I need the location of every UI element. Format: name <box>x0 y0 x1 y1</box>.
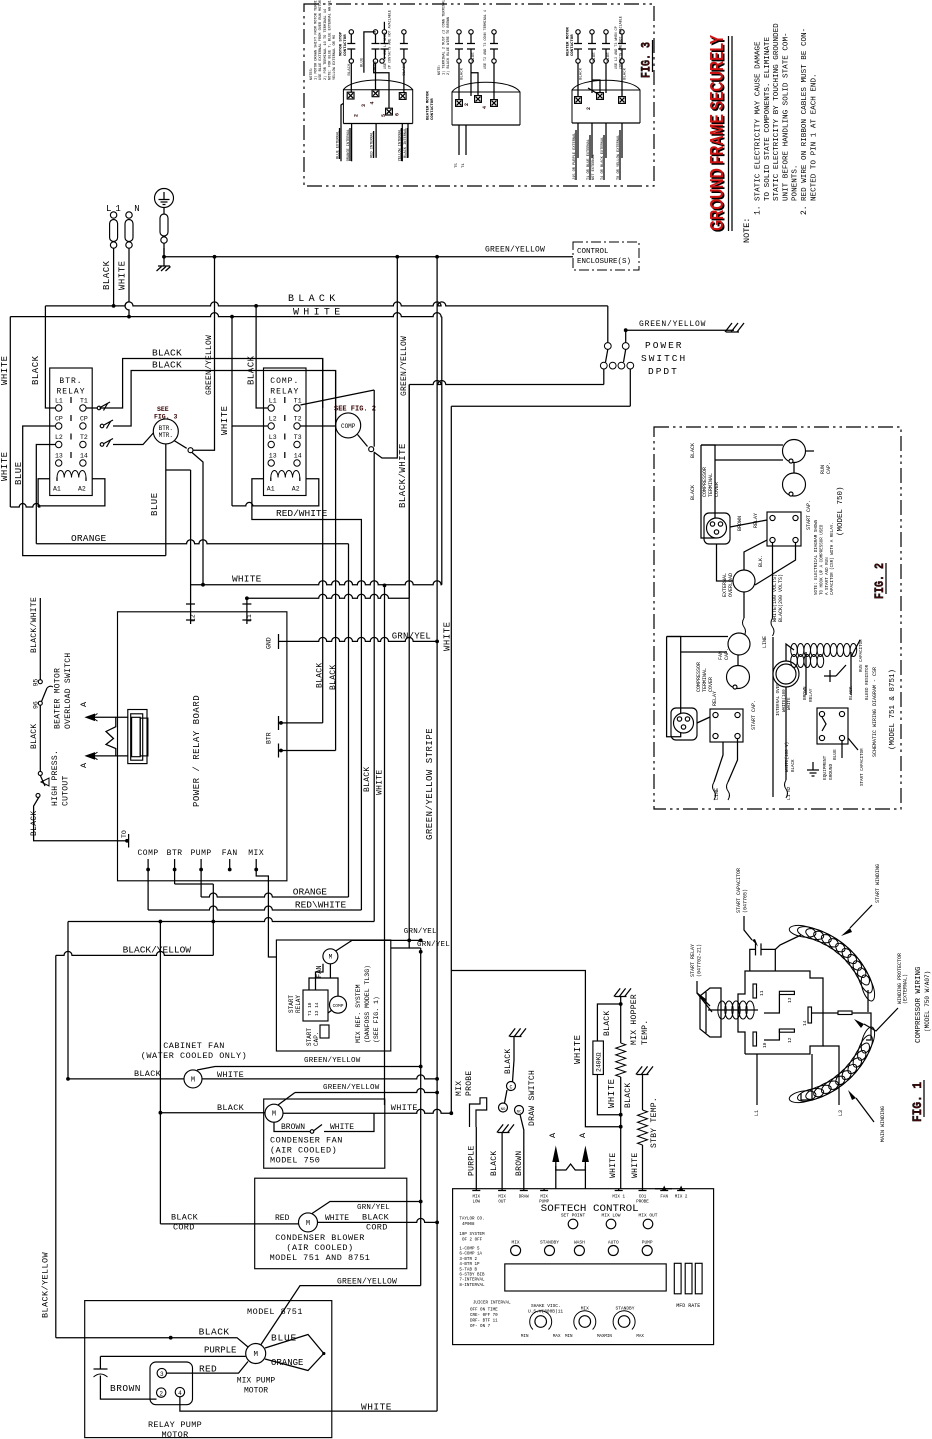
svg-text:T2: T2 <box>80 434 88 441</box>
fig 2 model 750 wire loop <box>701 445 715 538</box>
svg-text:LOW: LOW <box>473 1201 481 1205</box>
svg-text:MFD RATE: MFD RATE <box>676 1303 700 1309</box>
svg-text:CAP.: CAP. <box>313 1032 320 1046</box>
svg-text:MIX 1: MIX 1 <box>612 1196 625 1200</box>
svg-text:CP: CP <box>80 416 88 423</box>
svg-text:BLUE: BLUE <box>593 52 597 62</box>
svg-text:T1: T1 <box>80 398 88 405</box>
svg-text:MOTOR: MOTOR <box>244 1387 268 1396</box>
fuse F2 (N) <box>126 212 132 218</box>
svg-text:YELLOW EXTERNAL OR MG: YELLOW EXTERNAL OR MG <box>333 35 337 80</box>
panel knobs <box>530 1311 552 1330</box>
svg-text:MAX: MAX <box>636 1335 644 1339</box>
earth shield at power switch <box>726 331 739 333</box>
svg-text:MIX: MIX <box>455 1081 464 1096</box>
svg-text:L1: L1 <box>55 398 63 405</box>
beater motor frame switch <box>174 441 187 449</box>
relay K2 COMP RELAY box <box>264 368 307 496</box>
svg-text:BLACK: BLACK <box>171 1213 199 1223</box>
svg-text:MOTOR STOP: MOTOR STOP <box>340 31 344 56</box>
wire BLACK horizontal <box>174 870 176 885</box>
svg-text:MAX: MAX <box>553 1335 561 1339</box>
svg-text:SOFTECH CONTROL: SOFTECH CONTROL <box>541 1204 639 1215</box>
fig 1 internal wiring <box>812 1012 839 1014</box>
svg-text:WHITE: WHITE <box>607 1078 617 1108</box>
svg-text:BLACK: BLACK <box>329 664 338 690</box>
svg-text:GROUND FRAME SECURELY: GROUND FRAME SECURELY <box>707 35 727 231</box>
relay K1 outer box <box>38 479 105 506</box>
svg-text:(MODEL 751 & 8751): (MODEL 751 & 8751) <box>889 669 897 750</box>
svg-text:STANDBY: STANDBY <box>540 1240 559 1246</box>
svg-text:BLACK: BLACK <box>152 360 182 371</box>
wire beater motor to board L2 <box>166 469 191 471</box>
svg-text:SEE FIG. 2: SEE FIG. 2 <box>334 406 376 414</box>
svg-text:START CAPACITOR: START CAPACITOR <box>736 868 742 913</box>
svg-text:13: 13 <box>55 453 63 460</box>
svg-text:14: 14 <box>294 453 302 460</box>
svg-text:13: 13 <box>269 453 277 460</box>
svg-text:WHITE: WHITE <box>330 1123 354 1132</box>
svg-text:PURPLE: PURPLE <box>204 1346 236 1356</box>
svg-text:BLACK: BLACK <box>362 1213 390 1223</box>
svg-text:BLACK: BLACK <box>461 67 465 80</box>
draw switch shield <box>510 1036 522 1038</box>
svg-text:1-COMP 5: 1-COMP 5 <box>459 1248 480 1252</box>
svg-text:A1: A1 <box>53 486 61 493</box>
svg-text:BLACK: BLACK <box>217 1103 245 1113</box>
svg-text:UNIT BEFORE HANDLING SOLID STA: UNIT BEFORE HANDLING SOLID STATE COM- <box>782 32 790 201</box>
svg-text:MIX 2: MIX 2 <box>675 1196 688 1200</box>
svg-text:NOTE:: NOTE: <box>742 217 752 243</box>
fig 1 start relay plug <box>700 988 721 1037</box>
svg-text:BLACK: BLACK <box>30 723 39 749</box>
mix ref system box <box>276 940 390 1051</box>
capacitor C1 mix pump <box>99 1356 101 1369</box>
svg-text:BTR: BTR <box>167 849 183 858</box>
svg-text:8-INTERVAL: 8-INTERVAL <box>459 1284 485 1288</box>
svg-text:RED/WHITE: RED/WHITE <box>276 508 328 519</box>
svg-text:13: 13 <box>787 997 793 1003</box>
softech control panel box <box>453 1189 714 1345</box>
relay K1 coil <box>57 471 86 478</box>
svg-text:PUMP: PUMP <box>642 1240 653 1246</box>
svg-text:START WINDING: START WINDING <box>875 864 881 903</box>
svg-text:14: 14 <box>80 453 88 460</box>
svg-text:BLACK: BLACK <box>603 1010 612 1036</box>
svg-text:A2: A2 <box>292 486 300 493</box>
svg-text:BTR.: BTR. <box>159 425 173 432</box>
svg-text:2) FOR TERMINAL 10 TO TERMINAL: 2) FOR TERMINAL 10 TO TERMINAL 14 <box>323 9 328 80</box>
svg-text:BEATER MOTOR: BEATER MOTOR <box>54 668 63 729</box>
svg-text:WHITE: WHITE <box>232 574 262 585</box>
svg-text:COMP: COMP <box>137 849 158 858</box>
stby temp shield <box>637 1074 649 1076</box>
svg-text:PUMP: PUMP <box>539 1201 550 1205</box>
svg-text:A: A <box>79 762 89 768</box>
svg-text:NO: NO <box>501 1108 506 1112</box>
svg-text:RELAY: RELAY <box>270 388 299 397</box>
wire bundle ORANGE v3 <box>348 544 350 897</box>
svg-text:COMP.: COMP. <box>270 377 299 386</box>
fig 3 motor M3 risers <box>577 63 579 96</box>
fig 3 motor M1 risers <box>350 63 352 92</box>
svg-text:HEATER MOTOR: HEATER MOTOR <box>567 27 571 56</box>
svg-text:CABINET FAN: CABINET FAN <box>163 1041 225 1051</box>
wire BTR2 to bundle <box>287 750 336 752</box>
svg-text:BLACK: BLACK <box>624 1082 633 1108</box>
svg-text:START CAPACITOR: START CAPACITOR <box>861 748 865 786</box>
svg-text:(AIR COOLED): (AIR COOLED) <box>270 1146 337 1156</box>
svg-text:BLACK: BLACK <box>580 67 584 80</box>
svg-text:USE T2 AND T3 CONN TERMINAL 4: USE T2 AND T3 CONN TERMINAL 4 <box>484 10 488 69</box>
fig 3 motor M2 terminal squares <box>456 100 463 107</box>
svg-text:STATIC ELECTRICITY BY TOUCHING: STATIC ELECTRICITY BY TOUCHING GROUNDED <box>773 23 781 201</box>
panel display window <box>505 1264 666 1291</box>
relay K1 BTR RELAY box <box>50 368 92 496</box>
svg-text:GND: GND <box>265 637 272 649</box>
svg-text:MIX LOW: MIX LOW <box>602 1213 621 1219</box>
svg-text:CONTACTOR: CONTACTOR <box>344 34 348 56</box>
svg-text:(SEE FIG. 1): (SEE FIG. 1) <box>373 996 380 1043</box>
svg-text:MOTOR: MOTOR <box>161 1430 188 1439</box>
fig 1 terminal 13 <box>779 991 794 994</box>
svg-text:A: A <box>79 701 89 707</box>
svg-text:BLK.: BLK. <box>758 555 764 567</box>
svg-text:OF 2 OFF: OF 2 OFF <box>462 1239 483 1243</box>
svg-text:USE L2 AND T3 WHEN CP: USE L2 AND T3 WHEN CP <box>615 26 619 69</box>
svg-text:GREEN/YELLOW: GREEN/YELLOW <box>304 1057 361 1065</box>
svg-text:2) BLACK BLUE WIRE TO BROWN: 2) BLACK BLUE WIRE TO BROWN <box>446 17 451 75</box>
svg-text:BLEED RESISTOR: BLEED RESISTOR <box>866 664 870 700</box>
svg-text:L2: L2 <box>269 416 277 423</box>
svg-text:DRAW SWITCH: DRAW SWITCH <box>528 1070 537 1126</box>
probe shield <box>498 1132 510 1134</box>
svg-text:MIX: MIX <box>512 1240 520 1246</box>
svg-text:BLUE: BLUE <box>150 492 160 516</box>
svg-text:OF- ON 7: OF- ON 7 <box>470 1325 491 1329</box>
svg-text:2: 2 <box>586 107 592 110</box>
svg-text:BLACK: BLACK <box>624 67 628 80</box>
fig 3 border box <box>304 4 654 186</box>
wire K2 T2 to COMP <box>300 425 335 427</box>
svg-text:MIX REF. SYSTEM: MIX REF. SYSTEM <box>355 984 362 1043</box>
svg-text:WHITE: WHITE <box>391 1103 418 1113</box>
svg-text:START CAP.: START CAP. <box>806 500 812 530</box>
svg-text:START: START <box>306 1028 313 1046</box>
svg-text:RED: RED <box>275 1214 290 1223</box>
svg-text:AUTO: AUTO <box>608 1240 619 1246</box>
svg-text:GRN/YEL: GRN/YEL <box>392 632 431 642</box>
wire BLACK/YELLOW riser <box>212 884 214 955</box>
fig 2 model 750 terminal cover <box>704 513 730 544</box>
svg-text:SCHEMATIC WIRING DIAGRAM - CSR: SCHEMATIC WIRING DIAGRAM - CSR <box>872 667 878 757</box>
svg-text:SWITCH: SWITCH <box>641 353 687 364</box>
svg-text:BROWN: BROWN <box>281 1123 305 1132</box>
contact K1 CP <box>100 424 104 428</box>
svg-text:DPDT: DPDT <box>648 366 679 377</box>
svg-text:POWER / RELAY BOARD: POWER / RELAY BOARD <box>192 695 202 807</box>
svg-text:OFF ON TIME: OFF ON TIME <box>470 1309 498 1313</box>
svg-text:FAN: FAN <box>660 1196 668 1200</box>
svg-text:HIGH PRESS.: HIGH PRESS. <box>51 750 60 806</box>
fig 1 relay coil <box>718 1001 726 1019</box>
svg-text:BLACK: BLACK <box>288 294 340 305</box>
condenser blower box <box>255 1178 407 1269</box>
ground circle symbol <box>155 189 174 208</box>
svg-text:NOTES:: NOTES: <box>310 67 314 80</box>
svg-text:WHITE: WHITE <box>631 1152 640 1178</box>
svg-text:13 14: 13 14 <box>314 1002 320 1016</box>
svg-text:NC: NC <box>517 1111 522 1115</box>
svg-text:MIN: MIN <box>521 1335 529 1339</box>
svg-text:GREEN/YELLOW: GREEN/YELLOW <box>400 336 409 396</box>
svg-text:BLACK: BLACK <box>30 810 39 836</box>
svg-text:WHITE: WHITE <box>573 1034 583 1064</box>
svg-text:4: 4 <box>178 1390 182 1397</box>
svg-text:TO: TO <box>121 830 128 838</box>
svg-text:WHITE: WHITE <box>325 1214 349 1223</box>
svg-text:L1: L1 <box>754 1110 760 1116</box>
svg-text:1) TERMINAL 2 MUST (2 CONN TER: 1) TERMINAL 2 MUST (2 CONN TERMINAL 3 <box>442 0 447 75</box>
svg-text:4: 4 <box>370 101 376 104</box>
svg-text:CONTACTOR: CONTACTOR <box>571 34 575 56</box>
fig 3 motor M2 riser wires <box>471 73 478 96</box>
wire comp connections <box>330 978 338 996</box>
svg-text:L1: L1 <box>269 398 277 405</box>
svg-text:BLACK: BLACK <box>403 63 407 76</box>
svg-text:14: 14 <box>802 1020 808 1026</box>
svg-text:MIX: MIX <box>498 1196 506 1200</box>
svg-text:MIX: MIX <box>248 849 264 858</box>
fig 1 compressor body <box>738 971 823 1054</box>
fuse F1 (L1) <box>110 212 116 218</box>
svg-text:6-STBY BIB: 6-STBY BIB <box>459 1274 485 1278</box>
svg-text:GREEN/YELLOW: GREEN/YELLOW <box>639 320 706 329</box>
svg-text:L2: L2 <box>190 614 197 622</box>
fig 2 model 751 wires <box>714 742 723 782</box>
svg-text:BLACK/WHITE: BLACK/WHITE <box>398 443 408 508</box>
svg-text:4: 4 <box>482 106 488 109</box>
svg-text:5: 5 <box>381 114 387 117</box>
svg-text:BROWN: BROWN <box>110 1383 141 1394</box>
svg-text:GRN/YEL: GRN/YEL <box>404 928 437 936</box>
svg-text:T5: T5 <box>455 163 459 168</box>
svg-text:CAP.: CAP. <box>724 648 730 660</box>
svg-text:(MODEL 750 W/A07): (MODEL 750 W/A07) <box>924 971 931 1032</box>
svg-text:BLUE: BLUE <box>832 749 838 760</box>
svg-text:A2: A2 <box>78 486 86 493</box>
svg-text:7-INTERVAL: 7-INTERVAL <box>459 1279 485 1283</box>
fig 3 motor M2 dome <box>452 92 520 125</box>
fig 3 motor M1 dome <box>343 90 412 124</box>
svg-text:M: M <box>306 1220 310 1228</box>
svg-text:USE BLUE EXTERNAL FROM OVER RU: USE BLUE EXTERNAL FROM OVER RUN MOTOR, <box>319 0 323 80</box>
svg-text:MIN: MIN <box>565 1335 573 1339</box>
svg-text:RELAY PUMP: RELAY PUMP <box>148 1420 202 1430</box>
svg-text:OVERLOAD SWITCH: OVERLOAD SWITCH <box>64 652 73 729</box>
svg-text:A: A <box>548 1132 558 1138</box>
svg-text:FIG. 3: FIG. 3 <box>639 42 654 78</box>
svg-text:WHITE: WHITE <box>0 355 10 385</box>
svg-text:PURPLE: PURPLE <box>468 1145 477 1176</box>
power relay board box <box>118 612 287 881</box>
svg-text:3: 3 <box>361 104 367 107</box>
panel LEDs row2 <box>511 1246 521 1256</box>
svg-text:FIG. 2: FIG. 2 <box>872 563 887 599</box>
fig 3 motor M3 dome <box>572 90 640 123</box>
svg-text:NOTE:: NOTE: <box>438 64 442 75</box>
panel FAN MIX2 arrows <box>662 1186 666 1191</box>
svg-text:TO HOOK UP A COMPRESSOR USED: TO HOOK UP A COMPRESSOR USED <box>820 524 824 595</box>
svg-text:BROWN: BROWN <box>737 516 743 531</box>
svg-text:BEATER MOTOR: BEATER MOTOR <box>427 91 431 120</box>
svg-text:T1: T1 <box>294 398 302 405</box>
svg-text:4P008: 4P008 <box>462 1223 475 1227</box>
svg-text:(WATER COOLED ONLY): (WATER COOLED ONLY) <box>141 1051 247 1061</box>
svg-text:M: M <box>191 1076 195 1084</box>
svg-text:T2: T2 <box>294 416 302 423</box>
svg-text:FIG. 1: FIG. 1 <box>910 1082 925 1122</box>
svg-text:COMPRESSOR WIRING: COMPRESSOR WIRING <box>915 966 923 1043</box>
fig 3 motor M1 bottom leads <box>341 103 343 161</box>
svg-text:2: 2 <box>159 1390 163 1397</box>
svg-text:(AIR COOLED): (AIR COOLED) <box>286 1243 353 1253</box>
svg-text:WHITE: WHITE <box>788 697 792 710</box>
svg-text:M: M <box>329 953 333 960</box>
svg-text:MIX PUMP: MIX PUMP <box>237 1377 276 1386</box>
fig 1 start capacitor symbol <box>750 949 756 971</box>
svg-text:PONENTS.: PONENTS. <box>792 165 800 201</box>
svg-text:BROWN: BROWN <box>802 686 808 700</box>
svg-text:(047702-21): (047702-21) <box>697 944 703 977</box>
svg-text:TO SOLID STATE COMPONENTS. EL: TO SOLID STATE COMPONENTS. ELIMINATE <box>764 37 772 201</box>
fig 2 model 751 start cap circle <box>727 666 750 689</box>
relay pump motor box <box>150 1362 193 1405</box>
fig 3 motor M3 blade <box>588 88 598 94</box>
svg-text:BLACK: BLACK <box>690 443 696 458</box>
fig 1 terminal 11 <box>753 984 757 998</box>
svg-text:PROBE: PROBE <box>465 1070 474 1096</box>
fig 2 csr main winding coil <box>791 644 798 657</box>
svg-text:SHAKE VISC.: SHAKE VISC. <box>531 1303 561 1309</box>
svg-text:BTR.: BTR. <box>59 377 82 386</box>
svg-text:OVERLOAD: OVERLOAD <box>728 573 734 597</box>
mix ref compressor motor <box>330 996 347 1013</box>
svg-text:C: C <box>509 1085 512 1091</box>
fig 2 divider <box>772 637 774 797</box>
compressor frame switch <box>358 435 368 447</box>
svg-text:MODEL 8751: MODEL 8751 <box>247 1307 303 1317</box>
svg-text:RELAY: RELAY <box>808 688 814 702</box>
svg-text:FAN: FAN <box>222 849 238 858</box>
svg-text:LINE: LINE <box>762 636 768 648</box>
fig 3 motor M3 bottom leads <box>577 123 579 158</box>
wire board L2 drop <box>190 470 192 624</box>
contact K1 T1 <box>86 407 97 409</box>
relay pump terminal 3 <box>157 1368 166 1377</box>
fig 2 model 750 start cap <box>783 473 806 496</box>
svg-text:RELAY: RELAY <box>295 995 302 1013</box>
svg-text:BLACK: BLACK <box>348 63 352 76</box>
fig 3 motor M2 bottom leads <box>458 125 460 155</box>
svg-text:BLACK: BLACK <box>792 759 796 772</box>
svg-text:NECTED TO PIN 1 AT EACH END.: NECTED TO PIN 1 AT EACH END. <box>810 73 818 201</box>
svg-text:10: 10 <box>762 1042 768 1048</box>
svg-text:M: M <box>253 1351 258 1359</box>
svg-text:CONDENSER BLOWER: CONDENSER BLOWER <box>275 1233 365 1243</box>
svg-text:11: 11 <box>759 990 765 996</box>
svg-text:BLUE: BLUE <box>361 57 365 67</box>
wire switched line A return <box>409 381 604 385</box>
svg-text:BLACK: BLACK <box>134 1069 162 1079</box>
connector twist symbol <box>106 717 116 756</box>
svg-text:GROUND: GROUND <box>828 763 834 780</box>
svg-text:BLACK/WHITE: BLACK/WHITE <box>30 597 39 653</box>
svg-text:MIX HOPPER: MIX HOPPER <box>630 994 639 1045</box>
svg-text:RUN CAPACITOR: RUN CAPACITOR <box>860 639 864 672</box>
contact K1 T2 <box>100 443 104 447</box>
wire K1 T2 to beater motor <box>113 433 153 445</box>
svg-text:GREEN/YELLOW STRIPE: GREEN/YELLOW STRIPE <box>425 728 435 840</box>
svg-text:COMP: COMP <box>341 423 356 430</box>
svg-text:BROWN: BROWN <box>515 1150 524 1176</box>
fig 3 motor M3 riser wires <box>592 80 600 93</box>
svg-text:A1: A1 <box>267 486 275 493</box>
svg-text:WHITE: WHITE <box>609 1152 618 1178</box>
svg-text:6: 6 <box>395 113 401 116</box>
svg-text:CP: CP <box>55 416 63 423</box>
svg-text:ENCLOSURE(S): ENCLOSURE(S) <box>577 258 631 266</box>
relay K2 outer box <box>252 479 319 506</box>
svg-text:12: 12 <box>787 1037 793 1043</box>
svg-text:WHITE: WHITE <box>0 451 10 481</box>
svg-text:L3: L3 <box>838 1110 844 1116</box>
svg-text:(047765): (047765) <box>743 889 749 913</box>
fig 2 csr start winding coil <box>791 655 798 668</box>
wire fan to start relay <box>309 964 330 990</box>
svg-text:MIN: MIN <box>604 1335 612 1339</box>
svg-text:10P SYSTEM: 10P SYSTEM <box>459 1233 485 1237</box>
board terminal BTR 1 <box>279 722 287 724</box>
svg-text:BLACK: BLACK <box>152 348 182 359</box>
svg-text:CONDENSER FAN: CONDENSER FAN <box>270 1136 343 1146</box>
svg-text:5-TAB B: 5-TAB B <box>459 1268 477 1272</box>
svg-text:L3: L3 <box>269 434 277 441</box>
mix hopper shield <box>615 996 627 998</box>
svg-text:CUTOUT: CUTOUT <box>62 775 71 806</box>
fig 1 start winding top link <box>775 935 801 949</box>
svg-text:BLACK: BLACK <box>690 485 696 500</box>
svg-text:A START AND RUN: A START AND RUN <box>826 557 830 595</box>
svg-text:CONTACTS ARE NOT AVAILABLE: CONTACTS ARE NOT AVAILABLE <box>620 16 624 69</box>
connector plug body <box>128 710 147 764</box>
svg-text:MODEL 751 AND 8751: MODEL 751 AND 8751 <box>270 1253 371 1263</box>
relay pump terminal 2 <box>157 1388 166 1397</box>
mix pump motor <box>246 1344 266 1364</box>
svg-text:RELAY: RELAY <box>753 513 759 528</box>
condenser fan box <box>264 1099 385 1168</box>
svg-text:3-BTR 2: 3-BTR 2 <box>459 1258 477 1262</box>
fig 1 terminal 12 <box>779 1029 794 1032</box>
svg-text:(MODEL 750): (MODEL 750) <box>837 486 845 536</box>
mix probe bracket <box>470 1098 487 1127</box>
svg-text:2.: 2. <box>800 205 809 215</box>
svg-text:(EXTERNAL): (EXTERNAL) <box>903 974 909 1004</box>
wire MIX to mix ref box <box>256 870 276 958</box>
svg-text:GREEN/YELLOW: GREEN/YELLOW <box>323 1084 380 1092</box>
svg-text:COVER: COVER <box>714 482 720 497</box>
svg-text:RELAY: RELAY <box>56 388 85 397</box>
